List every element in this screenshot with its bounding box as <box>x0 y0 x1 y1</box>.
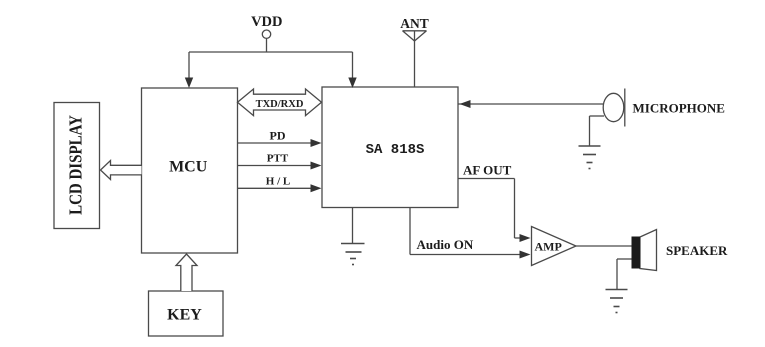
svg-text:SA 818S: SA 818S <box>366 142 425 158</box>
svg-text:MCU: MCU <box>169 159 208 176</box>
svg-text:TXD/RXD: TXD/RXD <box>256 99 304 110</box>
svg-text:SPEAKER: SPEAKER <box>666 243 728 258</box>
svg-text:ANT: ANT <box>400 16 429 31</box>
svg-text:Audio ON: Audio ON <box>417 237 474 252</box>
svg-text:H / L: H / L <box>266 176 290 188</box>
svg-text:LCD DISPLAY: LCD DISPLAY <box>65 115 86 215</box>
svg-text:AF OUT: AF OUT <box>463 163 512 178</box>
svg-text:KEY: KEY <box>167 307 202 324</box>
svg-text:AMP: AMP <box>535 240 562 254</box>
svg-text:VDD: VDD <box>251 14 282 30</box>
svg-text:MICROPHONE: MICROPHONE <box>633 101 725 116</box>
svg-text:PTT: PTT <box>267 153 289 165</box>
svg-text:PD: PD <box>270 129 286 143</box>
